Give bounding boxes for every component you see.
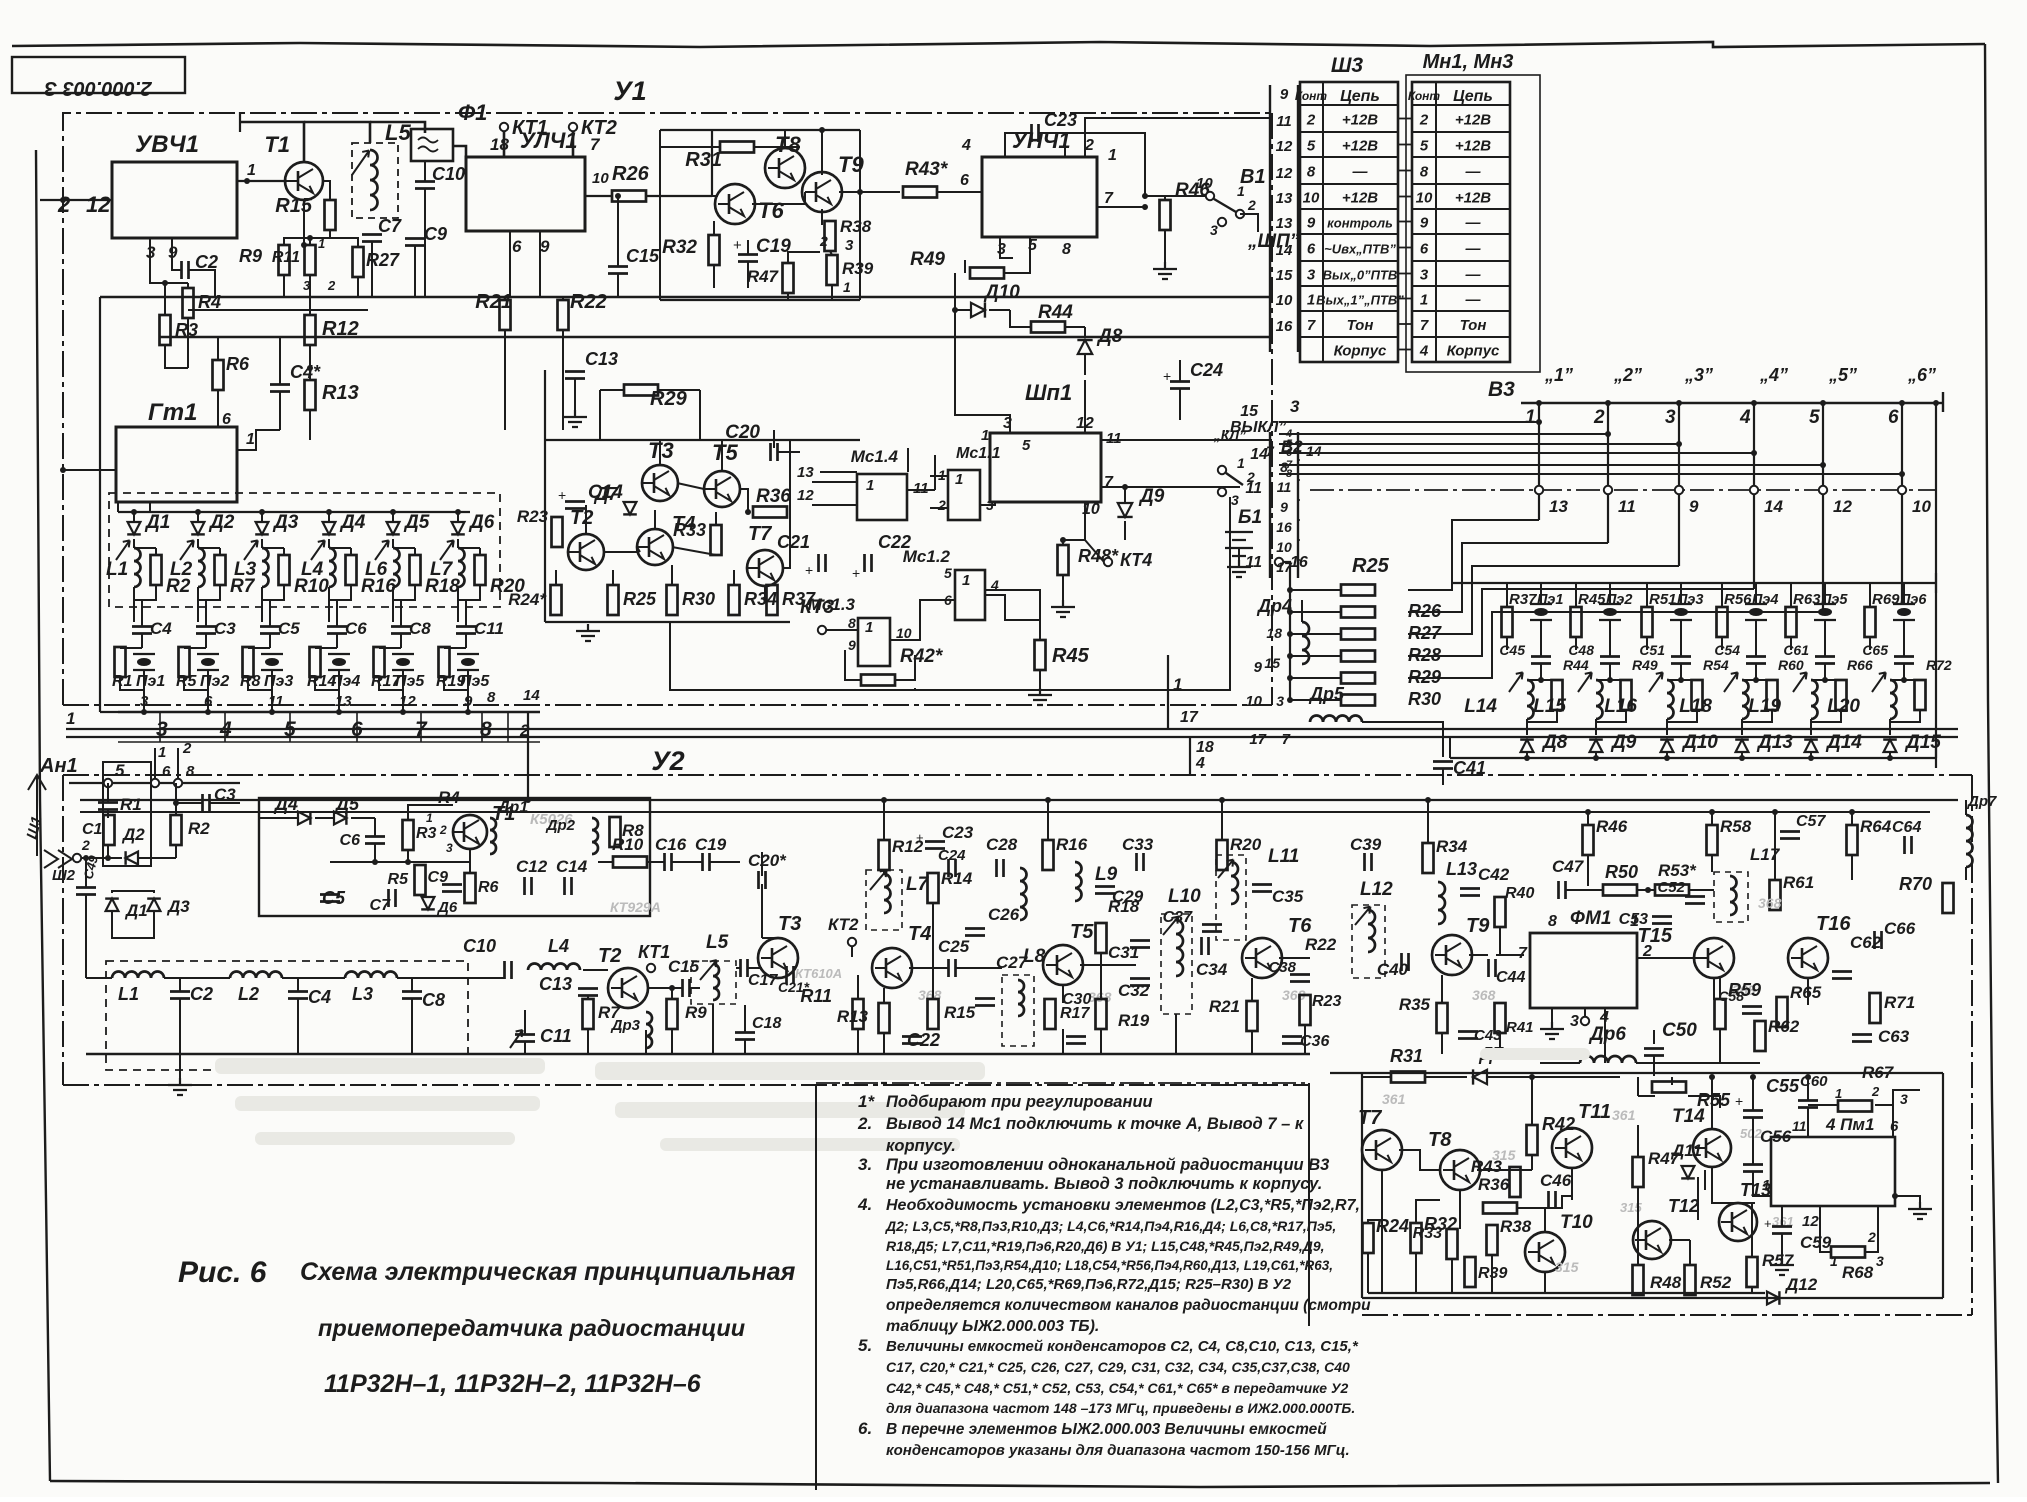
resistor R25 (1341, 585, 1375, 596)
transistor Т9 (802, 172, 842, 212)
svg-text:1: 1 (1237, 455, 1245, 471)
capacitor C9 (442, 885, 462, 892)
unit boundary У2 top edge (63, 774, 1972, 776)
inductor L3 (У2) (345, 972, 397, 979)
svg-text:10: 10 (1912, 497, 1931, 516)
svg-text:КТ1: КТ1 (638, 942, 670, 962)
svg-text:4: 4 (961, 137, 971, 154)
capacitor C4* (270, 385, 290, 392)
svg-text:Д8: Д8 (1541, 732, 1568, 753)
svg-text:11: 11 (1245, 480, 1262, 497)
svg-text:R37: R37 (1509, 591, 1537, 608)
svg-text:С62: С62 (1850, 933, 1882, 952)
wire КТ1 stub (503, 131, 506, 157)
У2 secondary bus (80, 811, 1930, 813)
resistor R8 (У1 bank) (243, 647, 254, 677)
resistor R65 (1777, 997, 1788, 1027)
transistor Т3 (У2) (758, 938, 798, 978)
svg-text:R40: R40 (1505, 885, 1534, 902)
svg-text:Гт1: Гт1 (148, 399, 197, 426)
capacitor C29 (1095, 887, 1115, 894)
capacitor C2 (182, 261, 189, 279)
svg-text:1: 1 (962, 572, 970, 589)
capacitor C43 (1458, 1032, 1478, 1039)
В3 stem 1 (1538, 403, 1540, 487)
svg-text:L1: L1 (118, 984, 139, 1004)
capacitor С5* (У1 bank) (260, 627, 280, 634)
svg-text:R11: R11 (272, 249, 300, 266)
svg-text:С1: С1 (82, 821, 103, 838)
svg-text:4.: 4. (857, 1195, 872, 1214)
capacitor C21* (787, 966, 794, 984)
svg-text:С58: С58 (1718, 988, 1744, 1004)
wire Др5 to С41 node (1362, 722, 1443, 757)
svg-text:С46: С46 (1540, 1171, 1572, 1190)
resistor R7 (У1 bank) (215, 555, 226, 585)
wire Шп1 pin10 down (1084, 502, 1086, 540)
svg-text:8: 8 (487, 689, 496, 706)
wires Т9 stage (1469, 954, 1488, 956)
test point КТ4 (1104, 558, 1112, 566)
ground (872, 1066, 896, 1083)
resistor R42* (861, 675, 895, 686)
svg-text:Др5: Др5 (1308, 684, 1345, 704)
svg-text:6: 6 (512, 237, 522, 256)
svg-text:R49: R49 (910, 249, 945, 270)
svg-text:2: 2 (1867, 1229, 1876, 1245)
svg-text:R38: R38 (840, 217, 872, 236)
svg-text:R28: R28 (1408, 645, 1441, 665)
svg-text:Вывод 14 Мс1 подключить к: Вывод 14 Мс1 подключить к точке А, Вывод… (886, 1115, 1305, 1133)
svg-text:+12В: +12В (1342, 190, 1378, 207)
svg-text:С24: С24 (938, 847, 966, 864)
svg-text:С55: С55 (1766, 1076, 1800, 1096)
connector Ш3 pin column (1269, 85, 1271, 352)
box around Д1 Д3 (112, 891, 154, 893)
svg-text:3: 3 (446, 841, 453, 855)
diode Д14 (1804, 740, 1818, 752)
svg-text:8: 8 (1062, 241, 1071, 258)
resistor R57 (1747, 1257, 1758, 1287)
capacitor C10 (415, 182, 435, 189)
svg-text:Др7: Др7 (1966, 793, 1997, 810)
capacitor C33 (1137, 853, 1144, 871)
svg-text:С3: С3 (214, 785, 236, 804)
svg-text:R9: R9 (239, 246, 262, 266)
svg-text:17: 17 (1180, 709, 1199, 726)
transistor Т11 (1552, 1128, 1592, 1168)
svg-text:Необходимость установки элем: Необходимость установки элементов (L2,C3… (886, 1197, 1360, 1214)
svg-text:2: 2 (1419, 112, 1429, 129)
resistor R29 (624, 385, 658, 396)
capacitor С45* (1531, 657, 1551, 664)
svg-text:R43: R43 (1471, 1157, 1503, 1176)
box bottom-right block top edge (1330, 1072, 1943, 1074)
capacitor C60 (1798, 1101, 1818, 1108)
flip-flop Мс1.2 (955, 570, 985, 620)
svg-text:12: 12 (1276, 138, 1293, 155)
transistor Т8 (765, 148, 805, 188)
resistor R23 (У1) (552, 517, 563, 547)
В3 stem 6 (1901, 403, 1903, 487)
piezo Пэ3 (261, 654, 283, 670)
notes right edge (1308, 1083, 1310, 1326)
box bottom-right block bottom edge (1362, 1297, 1943, 1299)
svg-text:3: 3 (1231, 492, 1239, 508)
resistor R35 (У2) (1437, 1003, 1448, 1033)
svg-text:R34: R34 (1436, 837, 1468, 856)
inductor L13 (1438, 882, 1445, 924)
svg-text:Т5: Т5 (1070, 921, 1094, 943)
svg-text:УВЧ1: УВЧ1 (135, 131, 199, 158)
piezo Пэ5 (1814, 604, 1836, 620)
transistor Т4 (У1) (637, 529, 673, 565)
svg-text:С64: С64 (1892, 819, 1921, 836)
svg-text:17: 17 (1276, 559, 1293, 575)
svg-text:Д13: Д13 (1756, 732, 1793, 753)
capacitor C49 (76, 888, 96, 895)
svg-text:9: 9 (540, 237, 550, 256)
svg-text:R18: R18 (1108, 897, 1140, 916)
svg-text:L3: L3 (234, 559, 257, 580)
capacitor C46 (1549, 1191, 1556, 1209)
resistor R52 (1685, 1265, 1696, 1295)
block Гт1 (116, 427, 237, 502)
svg-text:L15: L15 (1533, 696, 1566, 717)
capacitor C2 (170, 992, 190, 999)
svg-text:Д6: Д6 (436, 899, 458, 916)
wire LPF chain (86, 977, 112, 979)
svg-text:8: 8 (186, 763, 195, 780)
svg-text:10: 10 (1416, 190, 1433, 207)
filter Ф1 (411, 129, 453, 161)
input protection box (103, 762, 151, 866)
svg-text:С48: С48 (1568, 642, 1594, 658)
wire Мс1.3 bottom loop (670, 497, 1230, 690)
svg-text:R57: R57 (1762, 1251, 1795, 1270)
piezo Пэ3 (1670, 604, 1692, 620)
svg-text:R65: R65 (1790, 983, 1822, 1002)
svg-text:1: 1 (66, 709, 75, 728)
svg-text:L7: L7 (430, 559, 454, 580)
svg-text:6: 6 (204, 693, 213, 710)
svg-text:Мс1.1: Мс1.1 (956, 445, 1001, 462)
svg-text:Др2: Др2 (545, 817, 576, 834)
unit boundary У1 bottom edge (63, 704, 1272, 706)
transistor Т5 (У2) (1043, 945, 1083, 985)
dashed box RX channel bank (109, 493, 500, 607)
resistor R13 (305, 380, 316, 410)
capacitor C15 (683, 979, 690, 997)
svg-text:L3: L3 (352, 984, 373, 1004)
svg-text:1: 1 (1830, 1253, 1838, 1269)
transistor Т9 (У2) (1432, 935, 1472, 975)
svg-text:L7: L7 (906, 874, 930, 895)
svg-text:С11: С11 (540, 1026, 572, 1046)
resistor R18 (У1 bank) (410, 555, 421, 585)
svg-text:Д1: Д1 (144, 512, 170, 533)
svg-text:3: 3 (845, 237, 854, 254)
svg-text:Д6: Д6 (468, 512, 495, 533)
diode Д9 (У1) (1117, 503, 1132, 517)
capacitor C30 (1066, 1037, 1086, 1044)
svg-text:Рис. 6: Рис. 6 (178, 1256, 267, 1289)
svg-text:12: 12 (797, 487, 814, 504)
inductor L10 dashed box (1161, 914, 1192, 1014)
capacitor C63 (1852, 1035, 1872, 1042)
resistor R41 (У2) (1495, 1003, 1506, 1033)
svg-text:368: 368 (1758, 895, 1782, 911)
resistor R2 (У1 bank) (151, 555, 162, 585)
svg-text:В3: В3 (1488, 378, 1515, 401)
svg-text:Величины емкостей конденсато: Величины емкостей конденсаторов С2, С4, … (886, 1338, 1359, 1355)
resistor R13 (У2) (879, 1003, 890, 1033)
svg-text:L12: L12 (1360, 879, 1393, 900)
svg-text:С5: С5 (322, 888, 346, 908)
wires block internals (1381, 1170, 1383, 1293)
wire Пм1 pin right to ground (1892, 1193, 1898, 1199)
svg-text:Тон: Тон (1460, 317, 1487, 334)
svg-text:С24: С24 (1190, 360, 1223, 380)
resistor R51 (TX cell) (1642, 607, 1653, 637)
svg-text:17: 17 (1249, 731, 1266, 748)
svg-text:R9: R9 (685, 1003, 707, 1022)
resistor R42 (У2) (1527, 1125, 1538, 1155)
resistor R14 (У2) (928, 873, 939, 903)
capacitor C53 (1652, 917, 1672, 924)
svg-text:Схема электрическая принципи: Схема электрическая принципиальная (300, 1258, 796, 1286)
svg-text:9: 9 (1280, 86, 1289, 103)
svg-text:R42*: R42* (900, 646, 944, 667)
capacitor C62 (1832, 972, 1852, 979)
stage bottom wire (660, 299, 860, 301)
В3 contact 3 (1675, 486, 1683, 494)
Б1 switch row (dash-dot with contacts) (1310, 489, 1936, 491)
svg-text:—: — (1465, 215, 1482, 232)
svg-text:6: 6 (960, 172, 969, 189)
svg-text:9: 9 (1307, 215, 1316, 232)
resistor R47 (783, 263, 794, 293)
diode Д5 (У2) (334, 811, 346, 825)
svg-text:Д7: Д7 (593, 484, 619, 504)
svg-text:„3”: „3” (1684, 365, 1713, 385)
svg-text:„2”: „2” (1613, 365, 1642, 385)
У2 main ground bus (86, 1053, 1310, 1055)
svg-text:10: 10 (1245, 693, 1262, 710)
capacitor C19 (703, 853, 710, 871)
wire pin3 ground stub (1000, 237, 1013, 258)
capacitor С4* (У1 bank) (132, 627, 152, 634)
svg-text:С42,* С45,* С48,* С51,* С52, С: С42,* С45,* С48,* С51,* С52, С53, С54,* … (886, 1380, 1348, 1396)
transistor Т7 (У2) (1362, 1130, 1402, 1170)
svg-text:L5: L5 (385, 120, 411, 145)
capacitor C12 (525, 877, 532, 895)
inductor Др4 coil (1302, 622, 1309, 664)
block bottom bus (1368, 1292, 1765, 1294)
transistor Т14 (1693, 1129, 1731, 1167)
svg-text:Др4: Др4 (1256, 596, 1292, 616)
svg-text:Тон: Тон (1347, 317, 1374, 334)
svg-text:+12В: +12В (1342, 138, 1378, 155)
svg-text:8: 8 (1280, 459, 1288, 475)
page frame bottom border (50, 1481, 1990, 1487)
resistor R30 (1341, 695, 1375, 706)
resistor R11 (305, 245, 316, 275)
svg-text:Пэ5: Пэ5 (460, 673, 490, 690)
resistor R1 (У1 bank) (115, 647, 126, 677)
svg-text:18: 18 (490, 135, 509, 154)
resistor R56 (TX cell) (1717, 607, 1728, 637)
resistor R61 (1770, 880, 1781, 910)
inductor L2 (У1 bank) (198, 548, 205, 587)
diode Д13 (1735, 740, 1749, 752)
page frame right border (1985, 44, 1998, 1483)
svg-text:R45: R45 (1578, 591, 1606, 608)
diode Д6 (451, 522, 465, 534)
svg-text:R45: R45 (1052, 645, 1090, 667)
svg-text:R72: R72 (1926, 657, 1952, 673)
svg-text:1: 1 (1762, 1177, 1770, 1194)
svg-text:2: 2 (327, 278, 336, 293)
links between tables (1398, 118, 1412, 120)
svg-text:L20: L20 (1827, 696, 1860, 717)
notes box left edge (815, 1085, 817, 1490)
svg-text:R10: R10 (612, 835, 644, 854)
wire channel 14 down to У2 (527, 712, 529, 800)
resistor R15 (У2) (928, 999, 939, 1029)
inductor Др3 coil (646, 1012, 652, 1048)
svg-text:8: 8 (848, 615, 856, 631)
svg-text:R29: R29 (1408, 667, 1441, 687)
svg-text:L19: L19 (1748, 696, 1781, 717)
svg-text:Д5: Д5 (403, 512, 430, 533)
resistor R24 (У2) (1363, 1223, 1374, 1253)
svg-text:не устанавливать. Вывод 3: не устанавливать. Вывод 3 подключить к к… (886, 1175, 1322, 1193)
svg-text:конденсаторов указаны для: конденсаторов указаны для диапазона част… (886, 1442, 1350, 1459)
В3 contact 2 (1604, 486, 1612, 494)
block Шп1 (990, 433, 1101, 502)
svg-text:С17: С17 (748, 972, 778, 989)
svg-text:КТ929А: КТ929А (610, 899, 661, 915)
svg-text:L4: L4 (548, 936, 569, 956)
svg-text:Пэ5: Пэ5 (395, 673, 425, 690)
wire T1 collector to top rail (240, 122, 304, 162)
svg-text:С21*: С21* (778, 979, 810, 995)
svg-text:368: 368 (1088, 989, 1112, 1005)
diode Д3 (255, 522, 269, 534)
capacitor C7 (362, 235, 382, 242)
flip-flop Мс1.1 (948, 470, 980, 520)
svg-text:13: 13 (1276, 215, 1293, 232)
svg-text:С4: С4 (150, 619, 172, 638)
flip-flop Мс1.4 (857, 474, 907, 520)
svg-text:Т1: Т1 (264, 132, 290, 157)
svg-text:R31: R31 (1390, 1046, 1423, 1066)
svg-text:18: 18 (1196, 739, 1214, 756)
capacitor С51* (1671, 657, 1691, 664)
capacitor C47 (1559, 881, 1566, 899)
svg-text:7: 7 (1104, 474, 1114, 491)
capacitor C27 (975, 999, 995, 1006)
resistor R11 (У2) (853, 999, 864, 1029)
resistor R15 (325, 200, 336, 230)
transistor Т2 (У1) (568, 534, 604, 570)
capacitor C25 (949, 959, 956, 977)
svg-text:R5: R5 (176, 673, 198, 690)
svg-text:1: 1 (981, 427, 989, 444)
resistor R31 (1391, 1072, 1425, 1083)
capacitor С3* (У1 bank) (196, 627, 216, 634)
resistor R38 (825, 221, 836, 251)
capacitor C55 (1743, 1111, 1763, 1118)
В3 contact 5 (1819, 486, 1827, 494)
svg-text:6: 6 (1307, 241, 1316, 258)
svg-text:С10: С10 (463, 936, 496, 956)
dash frame around Мн table (1406, 75, 1540, 372)
svg-text:3: 3 (1290, 397, 1300, 416)
svg-text:L1: L1 (106, 559, 128, 580)
svg-text:Т11: Т11 (1578, 1101, 1611, 1123)
svg-text:+: + (1163, 368, 1171, 384)
wires Т4 stage (883, 800, 885, 840)
svg-text:R15: R15 (944, 1003, 976, 1022)
В3 rail end tick (1942, 392, 1944, 412)
svg-text:С6: С6 (345, 619, 367, 638)
capacitor C23 (1032, 124, 1039, 142)
wire УЛЧ1 pin9 down (539, 231, 541, 297)
svg-text:R6: R6 (226, 354, 250, 374)
svg-text:R56: R56 (1724, 591, 1752, 608)
svg-text:В перечне элементов ЫЖ2.000: В перечне элементов ЫЖ2.000.003 Величины… (886, 1421, 1327, 1438)
svg-text:R2: R2 (188, 819, 210, 838)
capacitor C21 (819, 554, 826, 572)
test point КТ1 (У2) (647, 964, 655, 972)
svg-text:Д12: Д12 (1784, 1275, 1818, 1294)
capacitor С8* (У1 bank) (391, 627, 411, 634)
svg-text:L2: L2 (170, 559, 193, 580)
wires T6/T8/T9 (712, 195, 718, 197)
document number box (12, 57, 185, 93)
svg-text:С7: С7 (378, 216, 402, 236)
wire right bus down (1935, 403, 1937, 758)
transistor Т10 (1525, 1232, 1565, 1272)
svg-text:R18,Д5; L7,C11,*R19,Пэ6,R20,Д: R18,Д5; L7,C11,*R19,Пэ6,R20,Д6) В У1; L1… (886, 1238, 1325, 1254)
ground ФМ1 (1551, 1008, 1553, 1022)
resistor R34 (У2) (1423, 843, 1434, 873)
wire Шп1 pin11 right (1101, 439, 1272, 441)
svg-text:R55: R55 (1697, 1090, 1731, 1110)
svg-text:R5: R5 (388, 871, 410, 888)
wire R12 bus link (188, 309, 368, 311)
switch Б1 contact (1218, 466, 1226, 474)
diode Д8 (У1) (1077, 340, 1092, 354)
svg-text:10: 10 (592, 170, 609, 187)
inductor L4 (528, 964, 580, 971)
wire bus stack top (1160, 561, 1290, 563)
resistor R12 (305, 315, 316, 345)
piezo Пэ4 (328, 654, 350, 670)
wire to T2 base (583, 969, 608, 971)
svg-text:R8: R8 (240, 673, 261, 690)
resistor R28 (1341, 651, 1375, 662)
inductor L16 (1667, 680, 1674, 719)
svg-text:R52: R52 (1700, 1273, 1732, 1292)
transistor Т13 (1719, 1203, 1757, 1241)
svg-text:„4”: „4” (1759, 365, 1788, 385)
svg-text:15: 15 (1276, 267, 1293, 284)
svg-text:С20*: С20* (748, 851, 787, 870)
svg-text:С21: С21 (777, 532, 810, 552)
